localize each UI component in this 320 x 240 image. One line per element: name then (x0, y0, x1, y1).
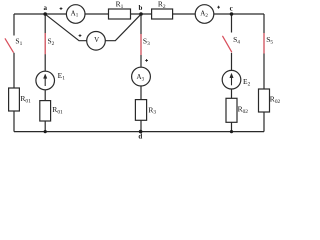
svg-text:d: d (138, 133, 142, 141)
svg-text:V: V (94, 36, 99, 44)
svg-text:a: a (44, 4, 48, 12)
svg-text:c: c (230, 5, 233, 13)
svg-text:b: b (139, 4, 143, 12)
